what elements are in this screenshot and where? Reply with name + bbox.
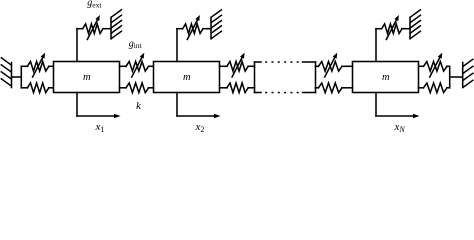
wire mass m2 to ground spring (vertical) <box>176 29 178 62</box>
wire dotted continuation (top rail) <box>265 61 315 63</box>
spring g_int variable (mass m1 to mass m2, top branch) <box>120 53 154 78</box>
svg-text:m: m <box>83 72 91 83</box>
spring k (continuation to mass mN, bottom branch) <box>316 83 353 93</box>
spring g_ext variable (mass m1 to upper wall) <box>77 15 111 40</box>
wall W2 (right fixed support) <box>463 59 474 88</box>
wall (upper fixed support of mass m2) <box>211 9 222 38</box>
wire wall W1 to node J1 <box>12 76 22 78</box>
wire mass m1 to ground spring (vertical) <box>76 29 78 62</box>
node J2 (right junction bar) <box>449 66 451 88</box>
mass m2 (box) <box>154 62 220 93</box>
svg-text:x1: x1 <box>95 121 105 134</box>
spring g_ext variable (mass mN to wall W2, top branch) <box>419 53 450 78</box>
wire dotted continuation (bottom rail) <box>265 92 315 94</box>
coordinate arrow x_1 of mass m1 <box>77 93 121 119</box>
wall W1 (left fixed support) <box>1 57 12 87</box>
mass m1 (box) <box>54 62 120 93</box>
node P2 (continuation right bracket) <box>315 62 317 93</box>
svg-text:gext: gext <box>87 0 102 9</box>
spring k (wall W1 to mass m1, bottom branch) <box>21 83 53 93</box>
spring k (mass m2 to continuation, bottom branch) <box>220 83 255 93</box>
spring k (mass mN to wall W2, bottom branch) <box>419 83 450 93</box>
svg-text:x2: x2 <box>195 121 205 134</box>
spring g_int variable (mass m2 to continuation, top branch) <box>220 53 255 78</box>
svg-text:xN: xN <box>394 121 406 134</box>
svg-text:m: m <box>382 72 390 83</box>
svg-text:m: m <box>183 72 191 83</box>
node J1 (left junction bar) <box>20 66 22 88</box>
mass mN (box) <box>353 62 419 93</box>
spring g_ext variable (mass m2 to upper wall) <box>177 15 211 40</box>
spring g_int variable (continuation to mass mN, top branch) <box>316 53 353 78</box>
wall (upper fixed support of mass m1) <box>111 9 122 38</box>
coordinate arrow x_2 of mass m2 <box>177 93 221 119</box>
spring k (mass m1 to mass m2, bottom branch) <box>120 83 154 93</box>
svg-text:gint: gint <box>129 38 143 50</box>
spring g_ext variable (mass mN to upper wall) <box>376 15 410 40</box>
spring g_ext variable (wall W1 to mass m1, top branch) <box>21 53 53 78</box>
wall (upper fixed support of mass mN) <box>410 9 421 38</box>
wire node J2 to wall W2 <box>450 76 463 78</box>
svg-text:k: k <box>136 100 142 112</box>
coordinate arrow x_N of mass mN <box>376 93 420 119</box>
node P1 (continuation left bracket) <box>255 62 262 93</box>
wire mass mN to ground spring (vertical) <box>375 29 377 62</box>
